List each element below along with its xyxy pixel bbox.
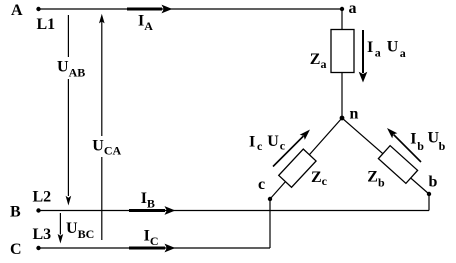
- svg-text:c: c: [258, 176, 265, 193]
- current arrow I_a (down through Z_a): [359, 30, 368, 83]
- node c junction dot: [268, 197, 272, 201]
- current arrow I_B: [129, 206, 175, 215]
- svg-text:L2: L2: [33, 189, 52, 206]
- current arrow I_C: [129, 244, 175, 253]
- current arrow I_b (toward n, up-left): [384, 125, 421, 162]
- impedance Z_c box: [279, 149, 316, 187]
- node L2 terminal dot: [36, 208, 40, 212]
- svg-text:C: C: [10, 241, 22, 258]
- node a junction dot: [340, 7, 344, 11]
- svg-text:B: B: [10, 204, 21, 221]
- current arrow I_c (toward n, up-right): [273, 127, 313, 167]
- wire b down to line B: [428, 194, 430, 211]
- wire line B (phase B horizontal): [38, 210, 429, 212]
- svg-text:L3: L3: [33, 226, 52, 243]
- current arrow I_A: [127, 5, 172, 14]
- svg-text:n: n: [350, 106, 359, 123]
- node L3 terminal dot: [36, 246, 40, 250]
- voltage arrow U_CA (C up to A): [99, 14, 105, 240]
- impedance Z_b box: [378, 146, 417, 184]
- wire n to b diagonal: [342, 118, 429, 194]
- impedance Z_a box: [331, 30, 354, 73]
- node L1 terminal dot: [36, 7, 40, 11]
- wire line A (phase A horizontal): [38, 8, 342, 10]
- svg-text:b: b: [429, 174, 438, 191]
- svg-text:a: a: [349, 0, 357, 17]
- svg-text:A: A: [11, 2, 23, 19]
- wire c down to line C: [269, 199, 271, 248]
- wire n to c diagonal: [270, 118, 342, 199]
- voltage arrow U_AB (A down to B): [66, 15, 72, 206]
- node b junction dot: [427, 192, 431, 196]
- wire line C (phase C horizontal): [38, 247, 270, 249]
- svg-text:L1: L1: [37, 16, 56, 33]
- node n junction dot: [340, 116, 345, 121]
- voltage arrow U_BC (B down to C): [58, 213, 64, 244]
- wire a to n vertical: [341, 9, 343, 118]
